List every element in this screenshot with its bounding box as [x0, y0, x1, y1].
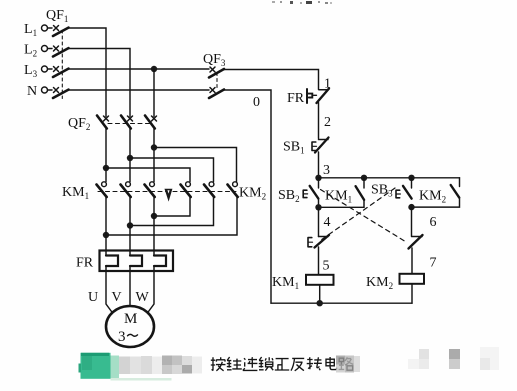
node 3 rail [319, 177, 460, 179]
pushbutton SB2 NC interlock contact [409, 235, 423, 249]
wire L3 down column C [153, 69, 155, 117]
terminal L1 [42, 25, 48, 31]
wire C to KM2 pole3 [154, 148, 237, 182]
svg-text:KM2: KM2 [239, 186, 266, 202]
breaker QF2 pole C [145, 116, 157, 129]
svg-text:KM1: KM1 [62, 185, 89, 201]
top edge cropped text specks [272, 1, 332, 4]
svg-text:7: 7 [430, 256, 437, 271]
char 钮 [227, 357, 242, 370]
FR contact symbol [307, 89, 317, 103]
right mosaic block 1 [408, 349, 429, 369]
svg-text:SB1: SB1 [283, 140, 305, 156]
coil KM2 [400, 274, 425, 284]
svg-text:KM1: KM1 [325, 189, 352, 205]
node: L3 tap junction [151, 66, 157, 72]
wire QF3 N to 0 rail [224, 90, 271, 303]
wire KM2 pole2 return to B [130, 197, 214, 226]
svg-text:3: 3 [118, 329, 126, 345]
wire column C QF2 to KM1 [153, 129, 155, 182]
wire A to KM2 pole1 [106, 168, 190, 182]
svg-text:L1: L1 [24, 22, 37, 38]
wire FR to motor U [106, 266, 112, 312]
node: column A tap to KM2 [103, 165, 109, 171]
terminal L2 [42, 46, 48, 52]
breaker QF1 pole L2 [48, 46, 69, 57]
wire SB1 to node 3 [318, 152, 320, 178]
breaker QF3 pole bottom [209, 88, 224, 99]
svg-text:QF3: QF3 [203, 52, 226, 68]
svg-text:V: V [112, 290, 122, 305]
watermark green block [79, 353, 172, 381]
breaker QF1 pole N [48, 88, 69, 99]
wire KM2 coil to bottom rail [411, 284, 413, 303]
wire node4 down [318, 207, 320, 236]
breaker QF2 pole A [97, 116, 109, 129]
svg-text:U: U [88, 290, 98, 305]
QF3 mechanical link (dashed) [216, 73, 218, 89]
wire N to QF3 [69, 89, 210, 91]
svg-text:KM2: KM2 [419, 189, 446, 205]
svg-text:6: 6 [430, 215, 437, 230]
svg-text:5: 5 [323, 259, 330, 274]
coil KM1 [306, 275, 334, 285]
svg-text:KM1: KM1 [272, 275, 299, 291]
breaker QF2 pole B [121, 116, 133, 129]
KM main contacts mechanical link (dashed) [98, 191, 236, 193]
contactor KM2 main contact 2 [204, 182, 214, 197]
wire column C KM1 to FR [153, 197, 155, 256]
pushbutton SB2 (NO) [303, 178, 318, 208]
svg-text:FR: FR [287, 91, 305, 106]
wire node6 down [411, 207, 413, 236]
svg-text:M: M [124, 311, 137, 327]
wire QF3 to control column (node 1 feed) [224, 70, 319, 90]
svg-text:KM2: KM2 [366, 275, 393, 291]
linkage arrow [165, 189, 172, 200]
svg-text:SB2: SB2 [278, 188, 300, 204]
node: KM1 aux tap [361, 175, 367, 181]
pushbutton SB3 (NO) [396, 178, 412, 199]
svg-text:L2: L2 [24, 43, 37, 59]
node: SB3 tap [408, 175, 414, 181]
char 电 [326, 357, 337, 370]
contactor KM2 main contact 3 [228, 182, 238, 197]
breaker QF1 pole L3 [48, 67, 69, 78]
FR heater element B [130, 256, 142, 267]
pushbutton SB1 (NC) [312, 138, 329, 153]
contactor KM1 main contact 3 [145, 182, 155, 197]
node 3 junction [315, 175, 321, 181]
QF1 mechanical link (dashed) [61, 30, 63, 99]
node: coil rail junction [317, 300, 323, 306]
mechanical link SB3 NO to SB3 NC (dashed) [321, 188, 395, 240]
FR heater element A [106, 256, 118, 267]
char 连 [243, 357, 258, 370]
wire to KM2 coil [411, 248, 413, 274]
node: column B tap to KM2 [127, 155, 133, 161]
svg-text:SB3: SB3 [371, 183, 393, 199]
node: B-return junction [127, 222, 133, 228]
wire column A QF2 to KM1 [105, 129, 107, 182]
caption text 按钮连锁正反转电路 (drawn as vector strokes) [211, 357, 353, 371]
node: C-return junction [151, 213, 157, 219]
node 6 junction [408, 204, 414, 210]
FR NC contact in control [317, 89, 330, 104]
node: A-return junction [103, 232, 109, 238]
thermal relay FR box [100, 251, 174, 272]
terminal L3 [42, 66, 48, 72]
svg-text:FR: FR [76, 256, 94, 271]
right mosaic block 3 [480, 347, 499, 370]
auxiliary contact KM2 (NO) [412, 178, 460, 207]
right mosaic block 2 [449, 349, 460, 369]
node: column C tap to KM2 [151, 144, 157, 150]
wire KM2 pole3 return to A [106, 197, 237, 235]
char 按 [211, 357, 226, 371]
char 锁 [259, 357, 273, 371]
wire FR to motor W [149, 266, 155, 312]
svg-text:4: 4 [324, 215, 331, 230]
svg-text:N: N [27, 84, 37, 99]
svg-text:2: 2 [324, 115, 331, 130]
wire L1 to column A [69, 28, 107, 117]
svg-text:L3: L3 [24, 63, 38, 79]
contactor KM2 main contact 1 [181, 182, 191, 197]
wire column B KM1 to FR [129, 197, 131, 256]
FR heater element C [154, 256, 166, 267]
svg-text:W: W [136, 290, 150, 305]
QF2 mechanical link (dashed) [108, 123, 152, 125]
svg-text:3: 3 [323, 163, 330, 178]
breaker QF1 pole L1 [48, 26, 69, 37]
pushbutton SB3 NC interlock contact [308, 235, 329, 248]
char 转 [307, 357, 322, 370]
wire L2 to column B [69, 49, 131, 117]
svg-text:QF2: QF2 [68, 116, 90, 132]
contactor KM1 main contact 2 [121, 182, 131, 197]
wire node1 to SB1 [318, 103, 320, 139]
wire B to KM2 pole2 [130, 158, 214, 182]
svg-text:QF1: QF1 [46, 8, 68, 24]
wire column A KM1 to FR [105, 197, 107, 256]
watermark mosaic blocks left [119, 356, 202, 375]
caption mosaic over last characters [336, 356, 360, 373]
wire FR to motor V [129, 266, 131, 306]
terminal N [42, 87, 48, 93]
char 反 [291, 358, 304, 370]
svg-text:0: 0 [253, 95, 260, 110]
wire KM2 pole1 return to C [154, 197, 190, 216]
char 路 [339, 357, 354, 370]
wire to KM1 coil [318, 247, 320, 275]
char 正 [275, 359, 289, 370]
wire column B QF2 to KM1 [129, 129, 131, 182]
wire KM1 coil to bottom rail [319, 285, 321, 303]
bottom rail 0 [271, 302, 412, 304]
auxiliary contact KM1 (NO) [319, 178, 365, 208]
node 4 junction [315, 204, 321, 210]
contactor KM1 main contact 1 [97, 182, 107, 197]
wire L3 to column C and QF3 [69, 68, 210, 70]
motor M circle [106, 306, 154, 347]
breaker QF3 pole top [209, 67, 224, 78]
mechanical link SB2 NO to SB2 NC (dashed) [321, 190, 408, 243]
